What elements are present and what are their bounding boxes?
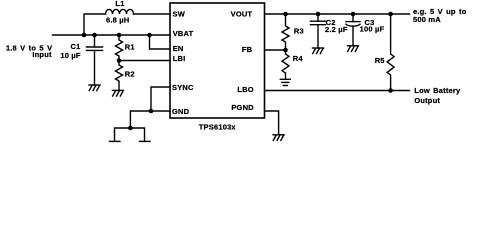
node junction ground bus bbox=[128, 126, 133, 131]
svg-text:R5: R5 bbox=[375, 56, 385, 65]
svg-text:Input: Input bbox=[32, 50, 52, 59]
ground under PGND bbox=[273, 135, 284, 141]
capacitor C3 polarized bbox=[346, 14, 360, 46]
svg-text:R3: R3 bbox=[294, 27, 304, 36]
wire LBO bbox=[265, 90, 410, 92]
wire L1 branch vertical and lead bbox=[84, 14, 106, 35]
node junction R3 top bbox=[283, 12, 288, 17]
wire VOUT rail bbox=[265, 13, 410, 15]
node junction R5 bottom LBO bbox=[388, 88, 393, 93]
wire GND bbox=[130, 111, 170, 128]
label R2 bbox=[125, 70, 135, 79]
ground right of bus bbox=[140, 140, 151, 142]
ground left of bus bbox=[110, 140, 121, 142]
label C3 bbox=[365, 18, 375, 27]
resistor R5 bbox=[387, 14, 394, 91]
resistor R2 bbox=[116, 61, 123, 91]
pin label VBAT bbox=[173, 29, 194, 38]
resistor R1 bbox=[116, 35, 123, 61]
capacitor C2 bbox=[311, 14, 326, 48]
node junction SYNC GND bbox=[149, 109, 154, 114]
svg-text:PGND: PGND bbox=[231, 103, 254, 112]
svg-text:100 µF: 100 µF bbox=[360, 24, 385, 33]
value 2.2 uF bbox=[325, 25, 348, 34]
inductor L1 bbox=[106, 9, 134, 14]
wire ground bus bar bbox=[115, 128, 145, 141]
node junction FB R3 R4 bbox=[283, 48, 288, 53]
value 10 uF bbox=[60, 51, 81, 60]
resistor R3 bbox=[282, 14, 289, 50]
svg-text:GND: GND bbox=[172, 107, 190, 116]
label output voltage bbox=[413, 7, 467, 24]
label input voltage bbox=[6, 43, 52, 59]
capacitor C1 bbox=[87, 35, 103, 85]
node junction EN branch bbox=[147, 33, 152, 38]
label R5 bbox=[375, 56, 385, 65]
node junction R5 top bbox=[388, 12, 393, 17]
svg-text:R4: R4 bbox=[293, 54, 304, 63]
resistor R4 bbox=[282, 50, 289, 79]
svg-text:SW: SW bbox=[173, 9, 186, 18]
ground under C1 bbox=[89, 85, 100, 91]
label C1 bbox=[71, 42, 81, 51]
wire L1 to SW pin bbox=[134, 13, 171, 15]
node junction L1 branch bbox=[82, 33, 87, 38]
svg-text:C1: C1 bbox=[71, 42, 81, 51]
pin label EN bbox=[173, 44, 184, 53]
ground under C3 bbox=[348, 46, 359, 52]
wire SYNC bbox=[151, 87, 170, 111]
wire input rail to VBAT pin bbox=[53, 34, 171, 36]
svg-text:2.2 µF: 2.2 µF bbox=[325, 25, 348, 34]
svg-text:Low Battery: Low Battery bbox=[414, 86, 461, 95]
label R3 bbox=[294, 27, 304, 36]
value 6.8 uH bbox=[106, 15, 129, 24]
svg-text:LBI: LBI bbox=[173, 54, 186, 63]
svg-text:SYNC: SYNC bbox=[172, 83, 194, 92]
ground under C2 bbox=[313, 48, 324, 54]
node junction C1 top bbox=[92, 33, 97, 38]
pin label LBI bbox=[173, 54, 186, 63]
svg-text:EN: EN bbox=[173, 44, 184, 53]
svg-text:VOUT: VOUT bbox=[231, 9, 253, 18]
pin label FB bbox=[242, 45, 253, 54]
pin label VOUT bbox=[231, 9, 253, 18]
value 100 uF bbox=[360, 24, 385, 33]
svg-text:Output: Output bbox=[414, 96, 440, 105]
node junction C2 top bbox=[316, 12, 321, 17]
wire FB bbox=[265, 49, 286, 51]
svg-text:6.8 µH: 6.8 µH bbox=[106, 15, 129, 24]
label low battery output bbox=[414, 86, 461, 105]
label L1 bbox=[115, 0, 124, 8]
ground under R4 earth style bbox=[280, 79, 290, 85]
svg-text:R1: R1 bbox=[125, 42, 135, 51]
node junction C3 top bbox=[351, 12, 356, 17]
IC U1 TPS6103x box bbox=[170, 3, 265, 118]
ground under R2 bbox=[113, 90, 124, 96]
svg-text:L1: L1 bbox=[115, 0, 124, 8]
svg-text:500 mA: 500 mA bbox=[413, 15, 441, 24]
svg-text:FB: FB bbox=[242, 45, 253, 54]
svg-text:10 µF: 10 µF bbox=[60, 51, 81, 60]
node junction R1 top bbox=[117, 33, 122, 38]
wire EN branch bbox=[150, 35, 171, 49]
label R1 bbox=[125, 42, 135, 51]
pin label SW bbox=[173, 9, 186, 18]
pin label PGND bbox=[231, 103, 254, 112]
svg-text:TPS6103x: TPS6103x bbox=[199, 123, 237, 132]
svg-text:R2: R2 bbox=[125, 70, 135, 79]
label R4 bbox=[293, 54, 304, 63]
svg-text:VBAT: VBAT bbox=[173, 29, 194, 38]
IC label TPS6103x bbox=[199, 123, 237, 132]
wire PGND bbox=[265, 111, 279, 135]
node junction R1 R2 LBI bbox=[117, 58, 122, 63]
pin label GND bbox=[172, 107, 190, 116]
pin label SYNC bbox=[172, 83, 194, 92]
wire LBI bbox=[119, 60, 170, 62]
svg-text:LBO: LBO bbox=[237, 85, 253, 94]
pin label LBO bbox=[237, 85, 253, 94]
label C2 bbox=[326, 18, 336, 27]
